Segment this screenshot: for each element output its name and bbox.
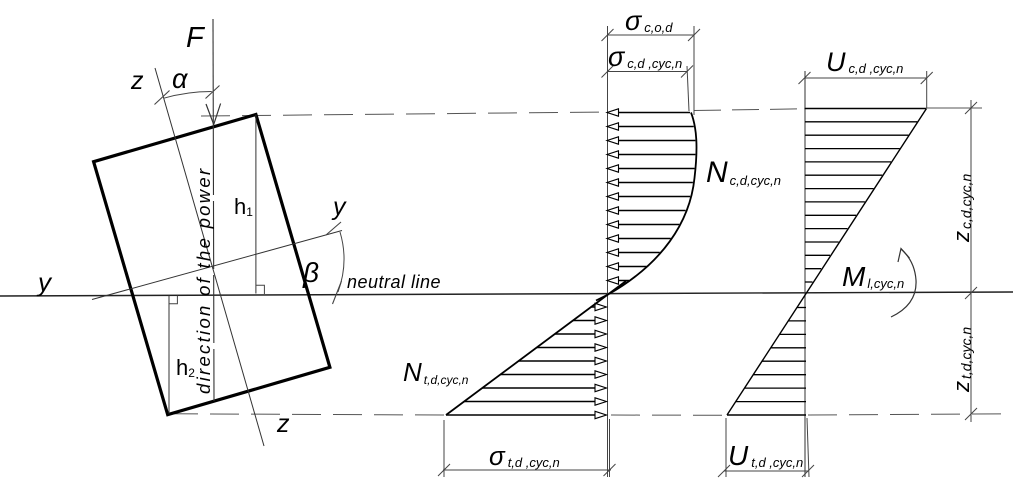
U diagram vertical axis — [804, 71, 806, 477]
tension stress arrows (N_t region) — [446, 303, 607, 418]
sigma_c,d,cyc,n dimension line — [602, 66, 694, 112]
alpha arc tick on F line — [206, 86, 220, 99]
svg-text:z: z — [130, 67, 144, 95]
U_c dimension line — [799, 71, 933, 108]
y inclined principal axis — [92, 231, 342, 300]
moment arrowhead — [898, 249, 910, 263]
moment arc M — [891, 249, 916, 317]
force F action line / direction of the power centerline — [212, 19, 214, 127]
U_t bottom edge — [727, 414, 806, 416]
U_t dimension — [718, 418, 814, 477]
z dimension line (right) — [965, 100, 977, 422]
U_c hatch lines — [805, 122, 917, 282]
beta arc tick on y line — [326, 222, 341, 235]
alpha arc tick on z line — [155, 91, 170, 105]
beta angle arc — [338, 232, 344, 292]
svg-text:neutral line: neutral line — [347, 272, 441, 292]
force F arrowhead — [206, 104, 221, 125]
right angle marker at h2 — [169, 296, 177, 304]
neutral axis horizontal line — [0, 292, 1013, 296]
svg-text:F: F — [186, 22, 206, 54]
svg-text:direction of the power: direction of the power — [193, 167, 214, 394]
compression stress arrows (N_c region) — [607, 109, 695, 284]
svg-text:y: y — [36, 267, 53, 297]
U_c / U_t hypotenuse (continuous) — [727, 109, 927, 416]
h1 measurement line — [255, 115, 257, 294]
svg-text:y: y — [331, 193, 347, 221]
svg-text:α: α — [172, 64, 189, 94]
compression stress curve — [596, 113, 697, 301]
U_c triangle top edge — [805, 108, 927, 110]
alpha angle arc — [164, 91, 212, 98]
U_t hatch lines — [736, 308, 806, 402]
z principal axis line — [155, 68, 264, 446]
svg-text:β: β — [302, 257, 319, 288]
beta arc tick on neutral line — [333, 281, 342, 304]
right angle marker at h1 — [256, 285, 264, 294]
sigma diagram vertical axis — [607, 26, 609, 477]
sigma_t dimension — [438, 419, 616, 477]
cross-section rectangle — [94, 115, 330, 415]
sigma_c,o,d dimension line — [602, 26, 701, 115]
svg-text:z: z — [276, 410, 290, 438]
bottom dashed reference line — [169, 414, 1008, 416]
h2 measurement line — [168, 296, 170, 414]
tension stress hypotenuse — [446, 281, 626, 415]
top dashed reference line — [201, 108, 982, 116]
